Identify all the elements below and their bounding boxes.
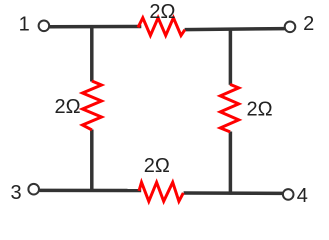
svg-text:2Ω: 2Ω	[246, 98, 272, 120]
svg-text:1: 1	[19, 13, 30, 35]
svg-text:2Ω: 2Ω	[149, 1, 175, 23]
svg-text:4: 4	[297, 185, 308, 207]
svg-text:2Ω: 2Ω	[144, 155, 170, 177]
svg-text:3: 3	[10, 182, 21, 204]
svg-text:2: 2	[303, 13, 314, 35]
svg-text:2Ω: 2Ω	[54, 96, 80, 118]
